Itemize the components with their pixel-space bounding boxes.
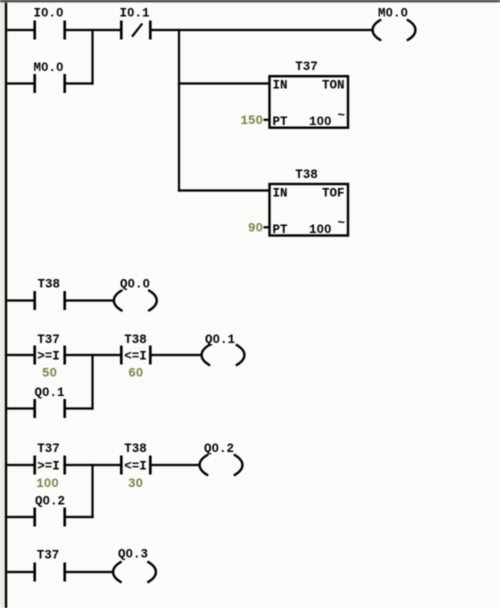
contact Q0.2 (parallel) xyxy=(35,508,65,527)
comparator contact T38 <=I xyxy=(121,456,150,475)
svg-text:>=I: >=I xyxy=(37,460,60,474)
left power rail xyxy=(5,3,7,608)
PT pin stub T37 xyxy=(264,119,271,121)
comparator contact T37 >=I xyxy=(35,456,65,475)
junction vertical (Q0.2 branch) xyxy=(91,464,93,518)
left margin strip xyxy=(0,3,4,608)
wire rail to contact Q0.1 xyxy=(6,407,34,409)
svg-text:T38: T38 xyxy=(124,333,147,347)
svg-text:60: 60 xyxy=(128,367,143,381)
svg-text:PT: PT xyxy=(273,223,289,237)
contact I0.1 (normally closed) xyxy=(121,21,150,40)
wire comparator to coil Q0.1 xyxy=(152,354,203,356)
PT pin stub T38 xyxy=(264,226,271,228)
wire I0.0 to I0.1 xyxy=(66,29,120,31)
wire branch to T38 IN xyxy=(178,189,270,191)
svg-text:T37: T37 xyxy=(295,60,318,74)
wire I0.1 to coil M0.0 xyxy=(152,29,374,31)
svg-text:90: 90 xyxy=(248,222,263,236)
junction vertical (Q0.1 branch) xyxy=(91,354,93,410)
svg-text:Q0.1: Q0.1 xyxy=(34,386,64,400)
wire rail to contact Q0.2 xyxy=(6,516,34,518)
wire rail to contact T37 xyxy=(6,571,34,573)
comparator contact T37 >=I xyxy=(35,346,65,365)
wire comparator to comparator xyxy=(66,464,120,466)
wire rail to contact T38 xyxy=(6,299,34,301)
coil Q0.0 xyxy=(114,290,157,311)
svg-text:>=I: >=I xyxy=(37,350,60,364)
contact T37 xyxy=(35,563,65,582)
wire rail to comparator T37 xyxy=(6,354,34,356)
svg-text:T37: T37 xyxy=(37,442,60,456)
contact Q0.1 (parallel) xyxy=(35,399,65,418)
svg-text:30: 30 xyxy=(128,477,143,491)
svg-text:IN: IN xyxy=(273,187,288,201)
wire rail to contact M0.0 xyxy=(6,82,34,84)
top window border xyxy=(0,0,500,2)
svg-text:<=I: <=I xyxy=(124,460,147,474)
svg-text:TOF: TOF xyxy=(322,187,345,201)
svg-text:T38: T38 xyxy=(295,168,318,182)
timer T38 (TOF) box xyxy=(270,168,349,237)
svg-text:<=I: <=I xyxy=(124,350,147,364)
zero glyph dot masks xyxy=(44,11,47,14)
contact I0.0 xyxy=(35,21,65,40)
svg-text:T38: T38 xyxy=(124,442,147,456)
coil Q0.1 xyxy=(202,345,245,366)
svg-text:Q0.2: Q0.2 xyxy=(35,495,65,509)
contact M0.0 (parallel) xyxy=(35,74,65,93)
wire Q0.1 contact to junction xyxy=(66,407,94,409)
wire branch to T37 IN xyxy=(178,82,270,84)
coil M0.0 xyxy=(373,20,416,41)
comparator contact T38 <=I xyxy=(121,346,150,365)
svg-text:Q0.2: Q0.2 xyxy=(204,442,234,456)
wire rail to contact I0.0 xyxy=(6,29,34,31)
svg-text:T38: T38 xyxy=(37,278,60,292)
svg-text:T37: T37 xyxy=(37,333,60,347)
svg-text:PT: PT xyxy=(273,115,289,129)
svg-text:IN: IN xyxy=(273,79,288,93)
svg-text:I0.1: I0.1 xyxy=(119,7,149,21)
contact T38 xyxy=(35,291,65,310)
wire comparator to coil Q0.2 xyxy=(152,464,201,466)
branch vertical to timers xyxy=(178,29,180,192)
wire rail to comparator T37 xyxy=(6,464,34,466)
svg-text:50: 50 xyxy=(42,367,57,381)
wire comparator to comparator xyxy=(66,354,120,356)
svg-text:~: ~ xyxy=(338,216,346,230)
junction vertical (parallel branch join) xyxy=(91,29,93,85)
svg-text:Q0.3: Q0.3 xyxy=(118,548,148,562)
svg-text:T37: T37 xyxy=(37,549,60,563)
wire contact to coil Q0.0 xyxy=(66,299,114,301)
wire contact to coil Q0.3 xyxy=(66,571,114,573)
coil Q0.3 xyxy=(113,562,156,583)
svg-text:~: ~ xyxy=(338,109,346,123)
timer T37 (TON) box xyxy=(270,60,349,129)
svg-text:Q0.1: Q0.1 xyxy=(205,333,235,347)
coil Q0.2 xyxy=(200,455,243,476)
wire M0.0 contact to junction xyxy=(66,82,94,84)
svg-text:TON: TON xyxy=(322,79,345,93)
wire Q0.2 contact to junction xyxy=(66,516,94,518)
